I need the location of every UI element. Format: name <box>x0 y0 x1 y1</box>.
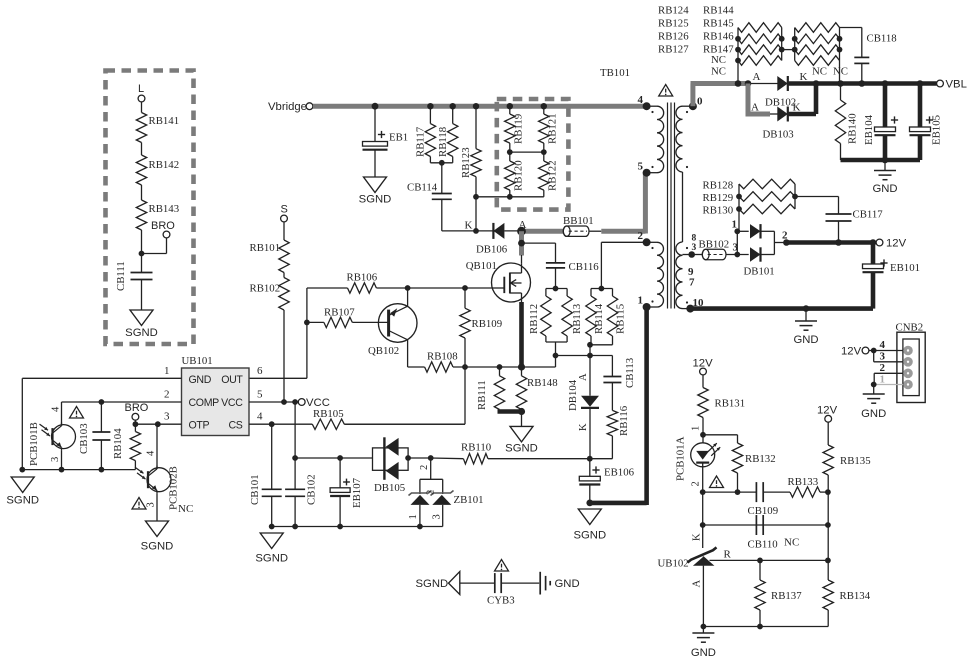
svg-text:RB114: RB114 <box>593 303 605 334</box>
svg-text:NC: NC <box>178 503 193 515</box>
ground GND (IEC) <box>540 572 579 595</box>
terminal 12V <box>876 238 906 250</box>
svg-text:QB102: QB102 <box>368 345 399 357</box>
svg-text:RB108: RB108 <box>427 351 458 363</box>
capacitor CB116 branch wire <box>522 243 556 263</box>
wire thick gnd rail <box>841 158 921 163</box>
label 1 (DB101) <box>732 219 738 231</box>
svg-text:RB148: RB148 <box>527 377 558 389</box>
label A (DB104) <box>578 373 589 381</box>
resistor RB110 <box>431 442 590 464</box>
svg-text:RB145: RB145 <box>703 18 734 30</box>
wire pair2 bottom rail <box>590 336 613 356</box>
svg-text:NC: NC <box>711 66 726 78</box>
svg-text:RB127: RB127 <box>658 44 689 56</box>
svg-text:3: 3 <box>733 242 739 254</box>
node A junction <box>517 227 526 236</box>
node junction <box>587 342 593 348</box>
resistor RB133 <box>788 476 828 497</box>
svg-text:K: K <box>465 220 473 232</box>
capacitor CB118 <box>840 28 897 84</box>
svg-text:UB102: UB102 <box>658 558 689 570</box>
resistor RB134 <box>823 580 871 627</box>
node junction <box>757 558 763 564</box>
svg-text:A: A <box>692 580 703 588</box>
label K (DB102) <box>800 71 808 83</box>
warning triangle <box>659 85 673 97</box>
label K (DB103) <box>793 102 801 114</box>
svg-text:GND: GND <box>872 183 897 195</box>
node junction <box>813 80 924 87</box>
svg-text:L: L <box>138 83 144 95</box>
dashed enclosure (snubber resistors) <box>497 99 569 210</box>
warning triangle <box>132 498 146 510</box>
wire <box>475 106 477 149</box>
svg-text:EB104: EB104 <box>863 114 875 145</box>
resistor RB121 <box>539 113 559 144</box>
label 3 (DB101) <box>733 242 739 254</box>
wire <box>871 272 876 308</box>
svg-text:CYB3: CYB3 <box>487 595 515 607</box>
node junction <box>292 455 343 461</box>
dashed enclosure (line-sense divider) <box>106 71 194 345</box>
svg-text:GND: GND <box>691 647 716 659</box>
svg-text:RB122: RB122 <box>547 160 559 191</box>
wire gate line <box>376 287 492 289</box>
svg-text:GND: GND <box>555 578 580 590</box>
svg-text:1: 1 <box>691 426 702 431</box>
diode DB106 <box>476 223 522 256</box>
wire <box>702 418 704 444</box>
resistor RB104 <box>112 428 141 470</box>
svg-text:GND: GND <box>793 334 818 346</box>
svg-text:RB137: RB137 <box>771 590 802 602</box>
wire gray drop to DB103 <box>746 84 771 115</box>
svg-text:12V: 12V <box>817 405 838 417</box>
resistor RB116 <box>607 405 630 436</box>
wire <box>521 412 523 427</box>
svg-text:A: A <box>751 102 759 114</box>
wire <box>475 177 477 231</box>
svg-text:1: 1 <box>880 374 886 386</box>
node junction <box>507 149 547 155</box>
svg-text:RB120: RB120 <box>513 160 525 191</box>
shunt regulator UB102 <box>658 547 717 569</box>
resistor RB102 <box>250 278 290 311</box>
transistor QB102 <box>352 288 417 367</box>
node junction <box>99 399 105 405</box>
svg-text:OUT: OUT <box>221 374 243 386</box>
labels RB128-130 <box>703 180 734 217</box>
terminal 12V (CNB2) <box>841 346 877 358</box>
resistor RB143 <box>136 200 179 230</box>
svg-text:NC: NC <box>812 66 827 78</box>
node junction <box>735 80 752 87</box>
wire <box>873 385 875 395</box>
svg-text:2: 2 <box>419 465 430 470</box>
wire <box>702 627 704 634</box>
led optocoupler PCB101A <box>675 436 721 492</box>
resistor RB122 <box>539 160 559 191</box>
svg-text:2: 2 <box>691 481 702 486</box>
pin 9 <box>688 266 694 278</box>
pin 6 wire <box>257 365 263 377</box>
svg-text:EB1: EB1 <box>389 132 408 144</box>
svg-text:8: 8 <box>692 234 697 244</box>
svg-text:CB117: CB117 <box>853 209 884 221</box>
resistor RB109 <box>460 288 502 367</box>
wire thick VBL <box>788 81 937 86</box>
wire K line <box>703 524 828 526</box>
label K (DB104) <box>578 423 589 431</box>
svg-text:RB110: RB110 <box>461 442 491 454</box>
wire <box>589 356 591 396</box>
node junction <box>518 408 525 415</box>
wire out-line <box>249 288 307 378</box>
node junction <box>871 382 877 388</box>
wire <box>589 485 591 503</box>
node junction <box>439 160 445 166</box>
bead BB101 <box>563 215 594 236</box>
label K <box>465 220 473 232</box>
terminal S <box>281 204 288 222</box>
svg-text:SGND: SGND <box>505 443 538 455</box>
svg-text:QB101: QB101 <box>466 260 497 272</box>
svg-text:3: 3 <box>432 514 443 519</box>
terminal BRO <box>125 402 149 420</box>
capacitor CB103 <box>78 402 110 470</box>
wire <box>442 199 475 231</box>
node junction <box>450 103 456 109</box>
wire sgnd rail <box>272 526 443 528</box>
svg-text:SGND: SGND <box>141 541 174 553</box>
svg-text:RB116: RB116 <box>618 405 630 436</box>
node junction <box>825 489 831 563</box>
node junction <box>783 239 876 246</box>
ground GND <box>793 321 818 346</box>
resistor RB140 <box>835 84 858 161</box>
svg-text:CB110: CB110 <box>748 539 778 551</box>
node junction <box>269 524 423 530</box>
label 1 (PCB101A) <box>691 426 702 431</box>
wire <box>884 160 886 171</box>
svg-text:TB101: TB101 <box>600 67 630 79</box>
wire <box>702 492 704 548</box>
svg-text:CB111: CB111 <box>115 261 127 291</box>
node junction <box>19 467 104 473</box>
svg-text:SGND: SGND <box>359 194 392 206</box>
svg-text:RB105: RB105 <box>313 408 344 420</box>
wire thick DB103 K <box>788 84 816 115</box>
svg-text:CB113: CB113 <box>624 358 636 388</box>
svg-text:RB132: RB132 <box>745 453 776 465</box>
resistor bank RB128-130 <box>736 179 798 231</box>
wire RB108 line <box>408 366 425 368</box>
node junction <box>405 455 433 461</box>
wire <box>611 383 613 411</box>
svg-text:UB101: UB101 <box>182 355 213 367</box>
svg-text:EB107: EB107 <box>351 477 363 508</box>
node junction <box>304 320 310 326</box>
wire <box>827 475 829 580</box>
wire bottom rail <box>476 190 544 197</box>
wire node2 line <box>703 491 757 493</box>
wire thick pin10 rail <box>690 306 873 311</box>
warning triangle <box>70 407 84 419</box>
resistor RB131 <box>698 388 745 418</box>
svg-text:4: 4 <box>257 411 263 423</box>
wire <box>374 151 376 178</box>
label NC <box>178 503 193 515</box>
wire Vbridge bus <box>313 104 647 109</box>
wire <box>589 230 601 232</box>
svg-text:OTP: OTP <box>189 420 210 432</box>
capacitor CB113 <box>603 356 636 389</box>
svg-text:SGND: SGND <box>573 530 606 542</box>
node junction <box>269 421 275 427</box>
capacitor EB1 <box>363 131 409 150</box>
svg-text:CB101: CB101 <box>249 474 261 505</box>
node junction <box>462 363 525 370</box>
ground SGND <box>573 509 606 542</box>
transformer primary winding 4-5 <box>647 106 664 173</box>
label A (UB102) <box>692 580 703 588</box>
svg-text:5: 5 <box>257 389 263 401</box>
wire gray A to bead <box>522 229 564 234</box>
labels NC <box>711 54 726 78</box>
ground GND <box>691 633 716 659</box>
terminal VCC <box>281 397 330 409</box>
node junction <box>688 251 695 258</box>
capacitor EB101 <box>863 243 921 275</box>
svg-text:BRO: BRO <box>125 402 149 414</box>
wire <box>141 102 143 113</box>
warning triangle <box>495 560 509 572</box>
svg-text:EB105: EB105 <box>931 115 943 145</box>
node junction <box>700 522 706 528</box>
capacitor CB101 <box>249 424 282 526</box>
transformer polarity dots <box>651 111 688 304</box>
wire <box>441 163 443 194</box>
wire <box>805 309 807 321</box>
svg-text:RB101: RB101 <box>250 242 281 254</box>
wire <box>283 222 285 240</box>
svg-text:RB134: RB134 <box>840 590 871 602</box>
svg-text:RB106: RB106 <box>347 272 378 284</box>
wire gray to pin5 <box>601 173 645 234</box>
label QB101 drain wire thick <box>519 302 524 367</box>
svg-text:DB104: DB104 <box>567 379 579 411</box>
pin 4 wire <box>869 339 903 351</box>
wire vcc branch <box>294 402 296 458</box>
ground SGND <box>255 533 288 565</box>
node junction <box>553 353 559 367</box>
wire <box>141 230 143 273</box>
capacitor CYB3 <box>487 573 515 606</box>
node junction <box>803 305 810 312</box>
wire <box>374 106 376 141</box>
capacitor EB105 <box>910 84 943 161</box>
pin 7 <box>689 277 695 289</box>
wire pair2 top rail <box>591 289 613 297</box>
svg-text:CB103: CB103 <box>78 423 90 454</box>
node junction <box>553 286 559 292</box>
svg-text:4: 4 <box>51 406 62 412</box>
terminal VBL <box>937 79 967 91</box>
capacitor CB109 <box>748 482 779 517</box>
optocoupler PCB101B <box>28 402 76 470</box>
pin 3 wire <box>135 411 181 425</box>
node junction <box>427 103 433 109</box>
svg-text:SGND: SGND <box>255 553 288 565</box>
connector CNB2 <box>896 322 926 403</box>
svg-text:2: 2 <box>880 362 886 374</box>
svg-text:BRO: BRO <box>151 220 175 232</box>
node junction <box>372 103 379 110</box>
capacitor CB110 <box>748 515 778 551</box>
capacitor EB107 <box>330 458 363 527</box>
svg-text:4: 4 <box>146 450 157 456</box>
resistor RB135 <box>823 445 871 475</box>
svg-text:NC: NC <box>833 66 848 78</box>
svg-text:RB128: RB128 <box>703 180 734 192</box>
wire <box>827 422 829 445</box>
resistor RB117 <box>415 124 436 157</box>
label 2 (PCB101A) <box>691 481 702 486</box>
wire <box>589 408 591 459</box>
zener pair ZB101 <box>408 458 484 527</box>
transformer core <box>668 103 675 309</box>
svg-text:DB101: DB101 <box>744 266 775 278</box>
wire pair1 top rail <box>546 289 567 297</box>
svg-text:RB104: RB104 <box>112 428 124 459</box>
svg-text:RB107: RB107 <box>324 307 355 319</box>
svg-text:EB101: EB101 <box>890 262 920 274</box>
wire <box>141 280 143 311</box>
node junction <box>586 500 593 507</box>
wire DB105 line <box>295 457 372 459</box>
svg-text:NC: NC <box>784 537 799 549</box>
svg-text:DB106: DB106 <box>476 244 508 256</box>
wire gray drain drop <box>519 231 524 255</box>
svg-text:SGND: SGND <box>125 327 158 339</box>
pin 3 wire <box>874 351 903 363</box>
dual diode DB105 <box>373 437 409 494</box>
ground GND <box>861 394 886 420</box>
svg-text:3: 3 <box>146 502 157 507</box>
svg-text:RB143: RB143 <box>149 203 180 215</box>
label 2 (ZB101) <box>419 465 430 470</box>
svg-text:RB117: RB117 <box>415 126 427 157</box>
node junction <box>700 489 741 495</box>
svg-text:3: 3 <box>164 411 170 423</box>
svg-text:RB102: RB102 <box>250 283 281 295</box>
capacitor EB104 <box>863 84 898 161</box>
svg-text:GND: GND <box>861 408 886 420</box>
wire <box>501 582 539 584</box>
node junction <box>701 624 763 630</box>
terminal BRO <box>151 220 175 238</box>
node junction <box>405 285 468 291</box>
wire 355 line <box>556 355 613 357</box>
svg-text:RB109: RB109 <box>472 318 503 330</box>
labels NC bank2 <box>812 66 848 78</box>
svg-text:CS: CS <box>228 420 242 432</box>
resistor RB132 <box>732 443 775 492</box>
ground SGND <box>6 477 39 507</box>
svg-text:RB130: RB130 <box>703 205 734 217</box>
resistor RB141 <box>136 113 179 143</box>
svg-text:0: 0 <box>697 96 703 108</box>
node junction <box>518 240 525 247</box>
svg-text:GND: GND <box>189 374 212 386</box>
svg-text:S: S <box>281 204 288 216</box>
svg-text:RB112: RB112 <box>528 304 540 334</box>
svg-text:NC: NC <box>711 54 726 66</box>
svg-text:RB118: RB118 <box>437 127 449 157</box>
wire <box>555 268 557 289</box>
pin 2 wire <box>62 389 182 403</box>
pin 2 <box>638 230 651 246</box>
ground SGND <box>505 426 538 454</box>
wire R line <box>710 559 828 561</box>
wire <box>460 582 495 584</box>
node junction <box>599 286 605 292</box>
wire bottom rail <box>22 469 135 471</box>
svg-text:A: A <box>753 71 761 83</box>
svg-text:COMP: COMP <box>189 397 220 409</box>
resistor RB101 <box>250 240 290 273</box>
terminal Vbridge <box>268 101 313 113</box>
svg-text:1: 1 <box>164 365 170 377</box>
wire bottom rail <box>703 626 828 628</box>
svg-text:Vbridge: Vbridge <box>268 101 307 113</box>
wire <box>702 566 704 627</box>
svg-text:ZB101: ZB101 <box>454 494 484 506</box>
svg-text:3: 3 <box>50 457 61 462</box>
wire <box>141 185 143 200</box>
wire <box>408 457 431 459</box>
wire <box>430 157 452 163</box>
resistor RB123 <box>460 147 481 178</box>
node junction <box>507 103 547 109</box>
wire pair1 bottom rail <box>546 336 567 356</box>
wire <box>142 238 167 254</box>
svg-text:EB106: EB106 <box>604 467 635 479</box>
svg-text:4: 4 <box>638 94 644 106</box>
svg-text:PCB101B: PCB101B <box>28 422 40 466</box>
diode DB102 <box>748 76 796 109</box>
label 2 (DB101) <box>782 230 788 242</box>
svg-text:RB126: RB126 <box>658 31 689 43</box>
wire <box>590 436 613 459</box>
capacitor CB114 <box>407 182 452 200</box>
label A <box>519 219 527 231</box>
svg-text:RB133: RB133 <box>788 476 819 488</box>
resistor bank RB144-147 <box>782 23 843 84</box>
wire <box>702 375 704 388</box>
resistor RB112 <box>528 296 551 336</box>
mosfet QB101 <box>466 260 531 302</box>
terminal 12V (RB131) <box>693 358 714 375</box>
node junction <box>882 157 889 164</box>
svg-text:RB135: RB135 <box>840 455 871 467</box>
resistor RB142 <box>136 155 179 185</box>
label R (UB102) <box>724 549 732 561</box>
resistor RB148 <box>516 367 557 410</box>
svg-text:RB140: RB140 <box>847 113 859 144</box>
wire CS sense <box>344 367 465 424</box>
